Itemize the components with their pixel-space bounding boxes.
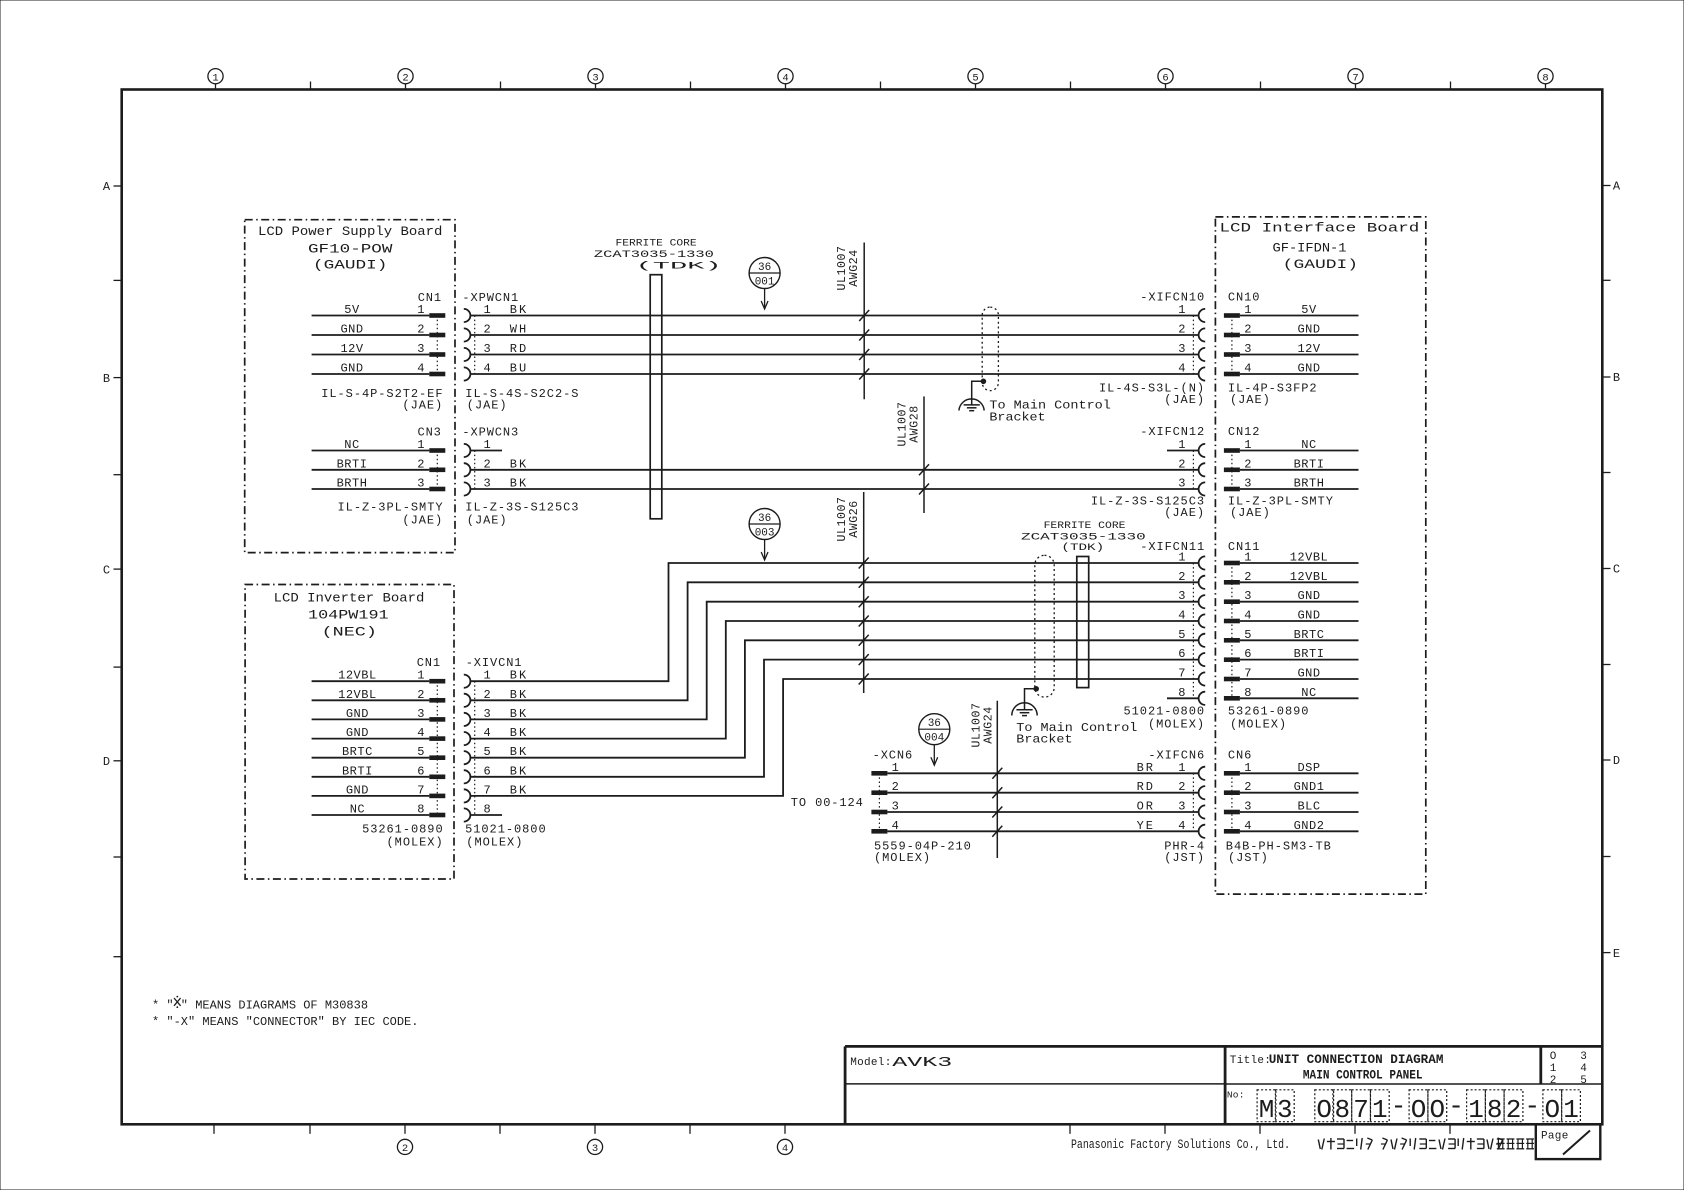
- title block revision numbers: [1550, 1051, 1588, 1087]
- svg-text:-XPWCN3: -XPWCN3: [462, 426, 519, 440]
- svg-text:-XIFCN12: -XIFCN12: [1140, 425, 1205, 439]
- svg-text:BR: BR: [1137, 761, 1155, 775]
- svg-text:Bracket: Bracket: [1016, 733, 1072, 747]
- svg-text:1: 1: [1372, 1095, 1388, 1125]
- svg-text:(MOLEX): (MOLEX): [1148, 718, 1205, 732]
- svg-text:36: 36: [928, 718, 941, 730]
- svg-text:(NEC): (NEC): [322, 626, 377, 640]
- svg-text:4: 4: [1580, 1063, 1587, 1075]
- svg-text:(JAE): (JAE): [467, 514, 508, 528]
- svg-text:BRTI: BRTI: [1294, 457, 1325, 471]
- svg-text:GF-IFDN-1: GF-IFDN-1: [1273, 241, 1347, 255]
- ferrite core FB1 ZCAT3035-1330 (TDK): [594, 237, 722, 519]
- svg-text:YE: YE: [1137, 819, 1155, 833]
- connector part label 53261-0890 (MOLEX): [362, 823, 444, 850]
- svg-text:6: 6: [1162, 72, 1168, 84]
- svg-text:O: O: [1429, 1095, 1445, 1125]
- svg-text:BLC: BLC: [1297, 800, 1320, 814]
- connector part label PHR-4 (JST): [1164, 839, 1205, 865]
- svg-text:12V: 12V: [340, 342, 363, 356]
- label To Main Control Bracket (upper): [989, 399, 1111, 425]
- svg-text:3: 3: [1178, 800, 1185, 814]
- svg-text:A: A: [1613, 180, 1621, 194]
- svg-text:M: M: [1259, 1095, 1275, 1125]
- svg-text:GND: GND: [346, 783, 369, 797]
- svg-text:2: 2: [417, 688, 424, 702]
- LCD Power Supply Board outline box: [245, 220, 455, 553]
- svg-text:(JAE): (JAE): [1230, 393, 1271, 407]
- svg-text:O: O: [1550, 1051, 1557, 1063]
- svg-text:LCD Interface Board: LCD Interface Board: [1220, 222, 1420, 236]
- connector part label 5559-04P-210 (MOLEX): [874, 839, 972, 865]
- svg-text:3: 3: [1178, 589, 1185, 603]
- svg-text:3: 3: [1277, 1095, 1293, 1125]
- svg-text:GND: GND: [1297, 667, 1320, 681]
- connector part label B4B-PH-SM3-TB (JST): [1226, 839, 1332, 865]
- svg-text:53261-0890: 53261-0890: [1228, 704, 1310, 718]
- svg-text:B: B: [103, 372, 110, 386]
- cable shield S2 (dotted capsule): [1035, 555, 1054, 697]
- wires XPWCN1 pins 1-4 to XIFCN10 pins 1-4 with cable slashes: [470, 310, 1198, 380]
- earth ground symbol 1: [959, 399, 984, 411]
- svg-text:7: 7: [1178, 667, 1185, 681]
- svg-text:4: 4: [1178, 819, 1185, 833]
- junction dot on shield S2: [1033, 686, 1039, 692]
- top border coordinate ticks 1-8: [208, 69, 1553, 90]
- svg-text:4: 4: [782, 72, 788, 84]
- svg-text:(MOLEX): (MOLEX): [1230, 718, 1287, 732]
- wires XIVCN1 pins 1-7 to XIFCN11 pins 1-7 with cable slashes: [470, 558, 1198, 796]
- left border coordinate letters A-D: [103, 180, 122, 957]
- svg-text:1: 1: [417, 438, 424, 452]
- svg-text:3: 3: [417, 707, 424, 721]
- svg-text:AWG28: AWG28: [909, 405, 922, 443]
- junction dot on shield S1: [981, 379, 987, 385]
- svg-text:1: 1: [1244, 551, 1251, 565]
- title block Title text: [1230, 1052, 1444, 1083]
- svg-text:4: 4: [417, 362, 424, 376]
- ground wire from shield S2: [1025, 689, 1037, 710]
- connector part label IL-Z-3S-S125C3 (JAE): [465, 501, 579, 528]
- svg-text:2: 2: [1550, 1075, 1557, 1087]
- svg-text:3: 3: [592, 1143, 598, 1155]
- svg-text:1: 1: [1468, 1095, 1484, 1125]
- svg-text:2: 2: [402, 1143, 408, 1155]
- svg-text:-: -: [1524, 1092, 1540, 1122]
- svg-text:4: 4: [1244, 819, 1251, 833]
- svg-text:2: 2: [1244, 457, 1251, 471]
- title block No: label: [1227, 1090, 1245, 1101]
- svg-text:(JAE): (JAE): [402, 514, 443, 528]
- company name Panasonic Factory Solutions Co., Ltd.: [1071, 1138, 1290, 1152]
- stub wire XPWCN3 pin 1: [470, 450, 502, 452]
- svg-text:* "-X" MEANS "CONNECTOR" BY IE: * "-X" MEANS "CONNECTOR" BY IEC CODE.: [152, 1015, 418, 1029]
- svg-text:NC: NC: [1301, 686, 1316, 700]
- connector -XIVCN1 (cable socket): [464, 656, 528, 822]
- svg-text:7: 7: [417, 783, 424, 797]
- svg-text:4: 4: [1178, 609, 1185, 623]
- svg-text:(JAE): (JAE): [402, 399, 443, 413]
- svg-text:12VBL: 12VBL: [1290, 551, 1329, 565]
- svg-text:4: 4: [1178, 362, 1185, 376]
- svg-text:1: 1: [1244, 761, 1251, 775]
- note line 1: asterisk means diagrams of M30838: [152, 996, 368, 1013]
- svg-text:4: 4: [417, 726, 424, 740]
- svg-text:C: C: [103, 563, 110, 577]
- svg-text:ZCAT3035-1330: ZCAT3035-1330: [594, 249, 714, 261]
- company name Japanese text (Panasonic Factory Solutions KK): [1318, 1138, 1534, 1150]
- svg-text:IL-Z-3S-S125C3: IL-Z-3S-S125C3: [465, 501, 579, 515]
- svg-text:3: 3: [1178, 477, 1185, 491]
- drawing border frame: [122, 90, 1603, 1125]
- svg-text:BRTI: BRTI: [1294, 647, 1325, 661]
- svg-text:7: 7: [1244, 667, 1251, 681]
- svg-text:8: 8: [1244, 686, 1251, 700]
- svg-text:Bracket: Bracket: [989, 410, 1045, 424]
- svg-text:6: 6: [1244, 647, 1251, 661]
- connector part label IL-Z-3S-S125C3 (JAE) right: [1091, 494, 1205, 520]
- svg-text:3: 3: [417, 342, 424, 356]
- svg-text:1: 1: [417, 303, 424, 317]
- svg-text:DSP: DSP: [1297, 761, 1320, 775]
- svg-text:-XIFCN10: -XIFCN10: [1140, 290, 1205, 304]
- svg-text:2: 2: [417, 323, 424, 337]
- wires XPWCN3 pins 2-3 to XIFCN12 pins 2-3 with cable slashes: [470, 464, 1198, 494]
- svg-text:(TDK): (TDK): [636, 261, 722, 273]
- svg-text:4: 4: [1244, 362, 1251, 376]
- svg-text:GND: GND: [1297, 362, 1320, 376]
- svg-text:GND: GND: [1297, 589, 1320, 603]
- svg-text:5: 5: [972, 72, 978, 84]
- svg-text:7: 7: [1352, 72, 1358, 84]
- svg-text:5: 5: [1244, 628, 1251, 642]
- svg-text:GND2: GND2: [1294, 819, 1325, 833]
- svg-text:1: 1: [1563, 1095, 1579, 1125]
- svg-text:5: 5: [1580, 1075, 1587, 1087]
- title block Model: AVK3: [850, 1056, 952, 1071]
- svg-text:BRTH: BRTH: [1294, 477, 1325, 491]
- svg-text:001: 001: [755, 277, 775, 289]
- svg-text:FERRITE CORE: FERRITE CORE: [616, 237, 697, 249]
- LCD Interface Board outline box: [1215, 217, 1425, 894]
- connector CN3 (LCD Power Supply Board header): [312, 426, 446, 492]
- svg-text:12VBL: 12VBL: [338, 688, 377, 702]
- LCD Inverter Board title text: [274, 591, 425, 639]
- connector -XPWCN1 (cable socket): [462, 291, 528, 381]
- svg-text:6: 6: [1178, 647, 1185, 661]
- svg-text:1: 1: [1244, 303, 1251, 317]
- svg-text:UNIT CONNECTION DIAGRAM: UNIT CONNECTION DIAGRAM: [1269, 1052, 1444, 1067]
- svg-text:(JAE): (JAE): [467, 399, 508, 413]
- svg-text:BRTH: BRTH: [337, 477, 368, 491]
- svg-text:GND: GND: [1297, 323, 1320, 337]
- svg-text:D: D: [103, 755, 110, 769]
- cable shield S1 (dotted capsule): [982, 307, 998, 391]
- svg-text:8: 8: [417, 803, 424, 817]
- svg-text:8: 8: [1542, 72, 1548, 84]
- svg-text:2: 2: [402, 72, 408, 84]
- svg-text:5: 5: [1178, 628, 1185, 642]
- svg-text:GND1: GND1: [1294, 780, 1325, 794]
- page box: [1536, 1124, 1601, 1159]
- connector part label IL-4P-S3FP2 (JAE): [1228, 381, 1318, 407]
- svg-text:1: 1: [212, 72, 218, 84]
- svg-text:3: 3: [592, 72, 598, 84]
- svg-text:Title:: Title:: [1230, 1055, 1271, 1067]
- reference pointer 36/003: [749, 509, 780, 561]
- svg-text:BRTI: BRTI: [337, 457, 368, 471]
- right border coordinate letters A-E: [1602, 180, 1621, 961]
- svg-text:(JAE): (JAE): [1164, 393, 1205, 407]
- svg-text:8: 8: [1487, 1095, 1503, 1125]
- svg-text:(GAUDI): (GAUDI): [313, 259, 387, 273]
- svg-text:GND: GND: [340, 323, 363, 337]
- connector CN1 (LCD Inverter Board header): [312, 656, 446, 817]
- svg-text:3: 3: [417, 477, 424, 491]
- svg-text:(GAUDI): (GAUDI): [1283, 258, 1358, 272]
- cable line UL1007 AWG24 (power cable): [836, 243, 864, 400]
- svg-text:12VBL: 12VBL: [338, 669, 377, 683]
- svg-text:BRTC: BRTC: [1294, 628, 1325, 642]
- svg-text:(JST): (JST): [1228, 851, 1269, 865]
- connector part label 51021-0800 (MOLEX) right: [1123, 704, 1205, 731]
- svg-text:Model:: Model:: [850, 1057, 891, 1069]
- svg-text:2: 2: [1244, 570, 1251, 584]
- svg-text:E: E: [1613, 947, 1620, 961]
- svg-text:A: A: [103, 180, 111, 194]
- svg-text:8: 8: [1334, 1095, 1350, 1125]
- svg-text:2: 2: [1178, 780, 1185, 794]
- svg-text:2: 2: [1178, 457, 1185, 471]
- svg-text:(MOLEX): (MOLEX): [387, 836, 444, 850]
- svg-text:(TDK): (TDK): [1061, 542, 1104, 554]
- svg-text:O: O: [1544, 1095, 1560, 1125]
- svg-text:-XIFCN6: -XIFCN6: [1148, 749, 1205, 763]
- reference pointer 36/001: [749, 258, 780, 310]
- svg-text:1: 1: [1550, 1063, 1557, 1075]
- svg-text:3: 3: [1244, 589, 1251, 603]
- svg-text:(JST): (JST): [1164, 851, 1205, 865]
- LCD Inverter Board outline box: [245, 585, 454, 880]
- svg-text:-: -: [1448, 1092, 1464, 1122]
- svg-text:4: 4: [782, 1143, 788, 1155]
- svg-text:1: 1: [417, 669, 424, 683]
- svg-text:AWG26: AWG26: [848, 500, 861, 538]
- svg-text:FERRITE CORE: FERRITE CORE: [1044, 520, 1126, 532]
- svg-text:IL-Z-3PL-SMTY: IL-Z-3PL-SMTY: [338, 501, 444, 515]
- svg-text:(JAE): (JAE): [1164, 506, 1205, 520]
- svg-text:NC: NC: [350, 803, 365, 817]
- svg-text:D: D: [1613, 754, 1620, 768]
- svg-text:3: 3: [1244, 477, 1251, 491]
- connector CN10 (LCD Interface Board header): [1224, 290, 1359, 376]
- svg-text:1: 1: [1178, 761, 1185, 775]
- svg-text:NC: NC: [344, 438, 359, 452]
- svg-text:No:: No:: [1227, 1090, 1245, 1101]
- connector -XPWCN3 (cable socket): [462, 426, 528, 496]
- svg-text:36: 36: [758, 262, 771, 274]
- connector part label IL-Z-3PL-SMTY (JAE): [338, 501, 444, 528]
- svg-text:36: 36: [758, 513, 771, 525]
- svg-text:12V: 12V: [1297, 342, 1320, 356]
- connector -XCN6 (cable plug): [871, 749, 913, 834]
- connector CN12 (LCD Interface Board header): [1224, 425, 1359, 491]
- svg-text:LCD Inverter Board: LCD Inverter Board: [274, 591, 425, 605]
- connector -XIFCN10 (cable socket): [1140, 290, 1205, 380]
- svg-text:TO 00-124: TO 00-124: [791, 796, 864, 810]
- title block borders: [845, 1046, 1602, 1124]
- svg-text:004: 004: [924, 733, 944, 745]
- svg-text:BRTC: BRTC: [342, 745, 373, 759]
- connector part label IL-Z-3PL-SMTY (JAE) right: [1228, 494, 1334, 520]
- svg-text:1: 1: [1244, 438, 1251, 452]
- svg-text:51021-0800: 51021-0800: [1123, 704, 1205, 718]
- svg-text:5: 5: [417, 745, 424, 759]
- svg-text:O: O: [1316, 1095, 1332, 1125]
- svg-text:(JAE): (JAE): [1230, 506, 1271, 520]
- connector -XIFCN12 (cable socket): [1140, 425, 1205, 495]
- bottom border coordinate ticks: [214, 1124, 1450, 1155]
- wires XCN6 pins 1-4 to XIFCN6 pins 1-4 with cable slashes: [887, 768, 1198, 837]
- svg-text:2: 2: [1178, 323, 1185, 337]
- svg-text:RD: RD: [1137, 780, 1155, 794]
- svg-text:3: 3: [1244, 800, 1251, 814]
- svg-text:* ": * ": [152, 999, 174, 1013]
- svg-text:2: 2: [417, 457, 424, 471]
- svg-text:MAIN CONTROL PANEL: MAIN CONTROL PANEL: [1303, 1068, 1423, 1083]
- svg-text:2: 2: [1244, 323, 1251, 337]
- svg-text:3: 3: [1244, 342, 1251, 356]
- svg-text:AWG24: AWG24: [848, 249, 861, 287]
- connector part label 51021-0800 (MOLEX): [465, 823, 547, 850]
- svg-text:Panasonic Factory Solutions Co: Panasonic Factory Solutions Co., Ltd.: [1071, 1138, 1290, 1152]
- svg-text:1: 1: [1178, 303, 1185, 317]
- svg-text:(MOLEX): (MOLEX): [874, 851, 931, 865]
- connector part label IL-4S-S3L-(N) (JAE): [1099, 381, 1205, 407]
- svg-text:003: 003: [755, 528, 775, 540]
- svg-text:BRTI: BRTI: [342, 764, 373, 778]
- cable line UL1007 AWG26 (inverter cable): [836, 492, 864, 693]
- svg-text:UL1007: UL1007: [836, 496, 849, 541]
- svg-text:GND: GND: [346, 726, 369, 740]
- svg-text:-: -: [1391, 1092, 1407, 1122]
- connector part label IL-S-4P-S2T2-EF (JAE): [321, 387, 443, 413]
- svg-text:GF10-POW: GF10-POW: [308, 242, 393, 256]
- svg-text:5V: 5V: [1301, 303, 1317, 317]
- connector part label IL-S-4S-S2C2-S (JAE): [465, 387, 579, 413]
- stub wire XIFCN12 pin 1: [1167, 450, 1199, 452]
- svg-text:B: B: [1613, 371, 1620, 385]
- svg-text:3: 3: [1580, 1051, 1587, 1063]
- svg-text:104PW191: 104PW191: [308, 609, 389, 623]
- svg-text:2: 2: [1178, 570, 1185, 584]
- drawing number M3 0871-00-182-01: [1257, 1090, 1580, 1125]
- svg-text:7: 7: [1353, 1095, 1369, 1125]
- cable line UL1007 AWG24 (CN6 cable): [970, 701, 997, 858]
- svg-text:-XIFCN11: -XIFCN11: [1140, 540, 1205, 554]
- connector CN11 (LCD Interface Board header): [1224, 540, 1359, 701]
- svg-text:LCD Power Supply Board: LCD Power Supply Board: [258, 225, 442, 239]
- svg-text:2: 2: [1244, 780, 1251, 794]
- label TO 00-124: [791, 796, 864, 810]
- note line 2: -X means connector by IEC code: [152, 1015, 418, 1029]
- svg-text:AVK3: AVK3: [892, 1056, 952, 1071]
- svg-text:53261-0890: 53261-0890: [362, 823, 444, 837]
- label To Main Control Bracket (lower): [1016, 721, 1137, 747]
- stub wire XIVCN1 pin 8: [470, 814, 502, 816]
- svg-text:51021-0800: 51021-0800: [465, 823, 547, 837]
- svg-text:1: 1: [1178, 551, 1185, 565]
- LCD Power Supply Board title text: [258, 225, 442, 272]
- svg-text:" MEANS DIAGRAMS OF M30838: " MEANS DIAGRAMS OF M30838: [181, 999, 368, 1013]
- svg-text:OR: OR: [1137, 800, 1155, 814]
- svg-text:Page: Page: [1541, 1131, 1569, 1143]
- stub wire XIFCN11 pin 8: [1167, 697, 1199, 699]
- svg-text:GND: GND: [340, 362, 363, 376]
- ground wire from shield S1: [972, 381, 984, 405]
- svg-text:GND: GND: [1297, 609, 1320, 623]
- ferrite core FB2 ZCAT3035-1330 (TDK): [1021, 520, 1146, 688]
- connector CN1 (LCD Power Supply Board header): [312, 291, 446, 376]
- connector part label 53261-0890 (MOLEX) right: [1228, 704, 1310, 731]
- svg-text:6: 6: [417, 764, 424, 778]
- svg-text:AWG24: AWG24: [982, 706, 995, 744]
- svg-text:5V: 5V: [344, 303, 360, 317]
- cable line UL1007 AWG28 (brightness cable): [897, 396, 924, 513]
- svg-text:3: 3: [1178, 342, 1185, 356]
- svg-text:NC: NC: [1301, 438, 1316, 452]
- svg-text:4: 4: [1244, 609, 1251, 623]
- svg-text:O: O: [1411, 1095, 1427, 1125]
- connector -XIFCN6 (cable socket): [1137, 749, 1206, 838]
- connector -XIFCN11 (cable socket): [1140, 540, 1205, 705]
- connector CN6 (LCD Interface Board header): [1224, 749, 1359, 834]
- earth ground symbol 2: [1012, 703, 1037, 716]
- svg-text:12VBL: 12VBL: [1290, 570, 1329, 584]
- svg-text:GND: GND: [346, 707, 369, 721]
- svg-text:(MOLEX): (MOLEX): [466, 836, 523, 850]
- svg-text:2: 2: [1506, 1095, 1522, 1125]
- reference pointer 36/004: [919, 714, 950, 766]
- svg-text:C: C: [1613, 563, 1620, 577]
- LCD Interface Board title text: [1220, 222, 1420, 272]
